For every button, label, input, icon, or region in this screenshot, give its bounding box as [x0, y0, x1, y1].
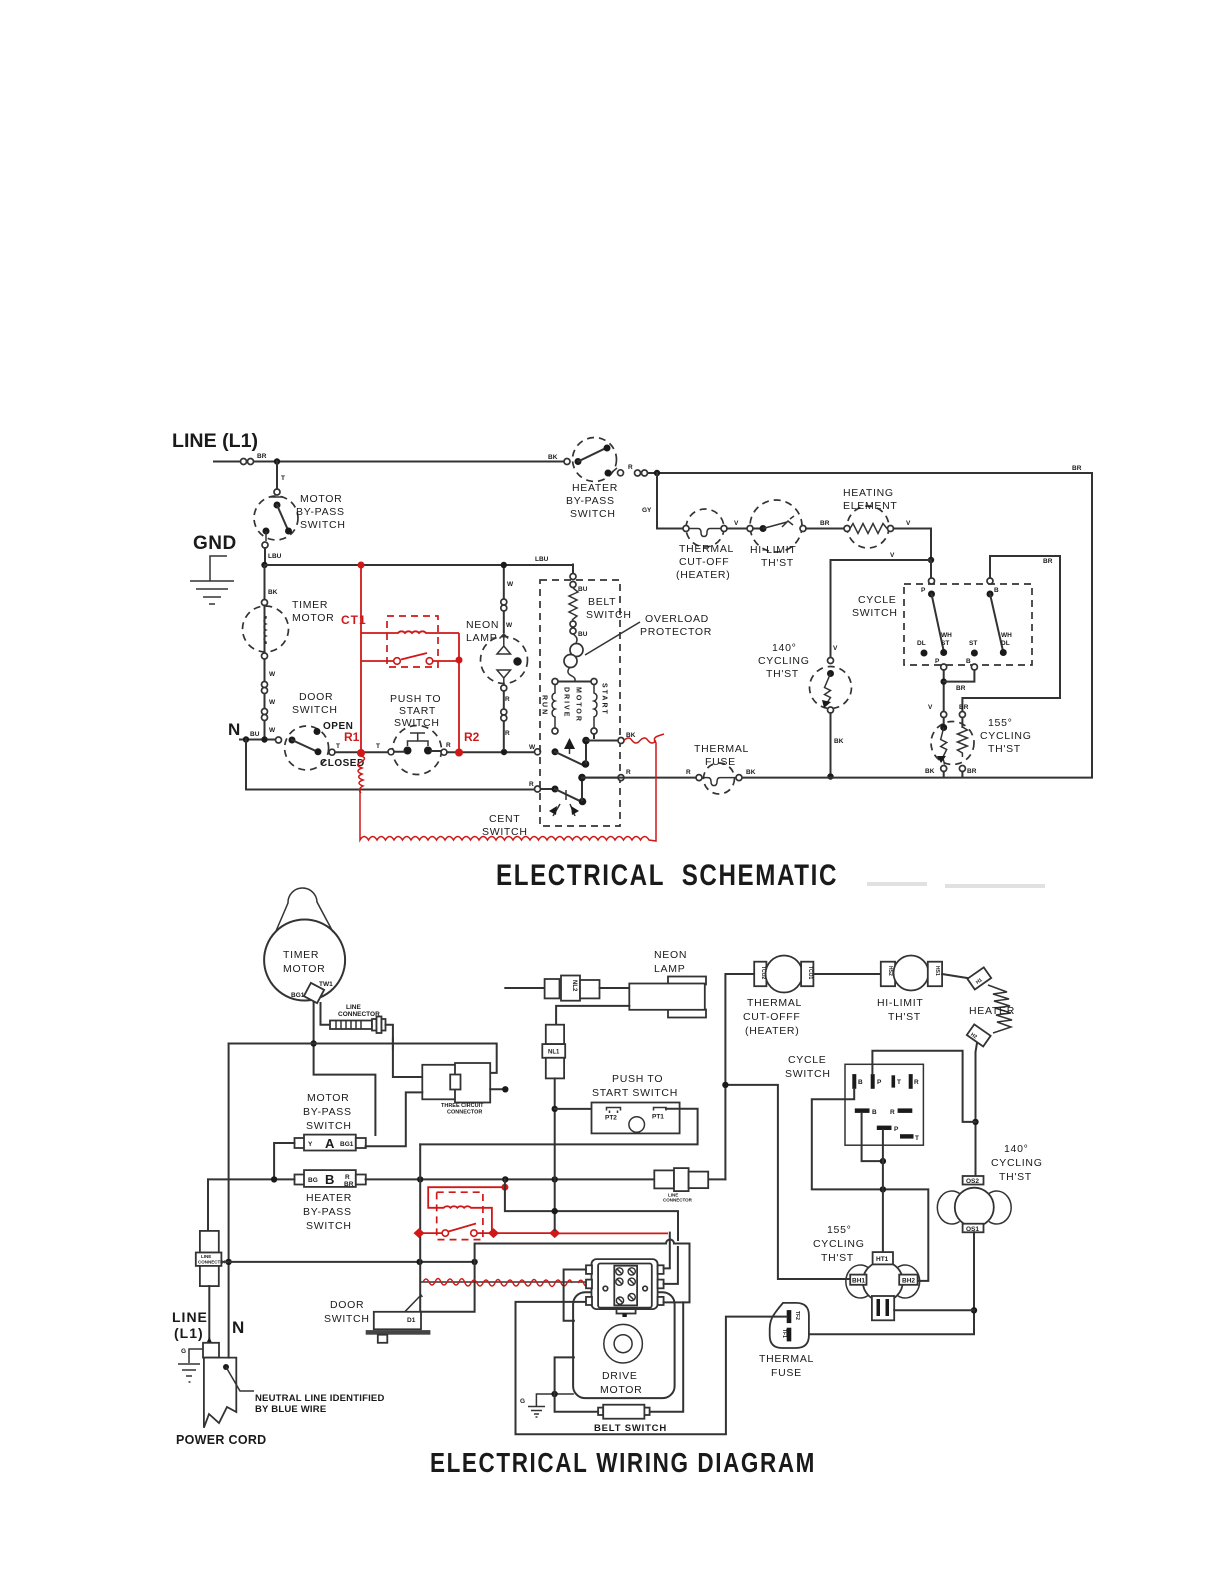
wire timer to line connector	[314, 1002, 376, 1135]
svg-text:PROTECTOR: PROTECTOR	[640, 626, 712, 638]
wire cycle P row pin down to 155	[882, 1130, 884, 1252]
svg-text:FUSE: FUSE	[771, 1367, 802, 1379]
svg-text:MOTOR: MOTOR	[600, 1384, 642, 1396]
wire mid-right pin up	[664, 1247, 678, 1284]
svg-text:P: P	[877, 1079, 882, 1086]
svg-text:LINE: LINE	[201, 1254, 211, 1259]
svg-text:HEATER: HEATER	[572, 482, 618, 494]
svg-text:SWITCH: SWITCH	[570, 508, 616, 520]
svg-text:CT1: CT1	[341, 613, 367, 627]
svg-text:THERMAL: THERMAL	[679, 543, 734, 555]
svg-text:DRIVE: DRIVE	[602, 1370, 638, 1382]
svg-text:HEATER: HEATER	[306, 1192, 352, 1204]
wire bottom BK line	[585, 777, 696, 779]
svg-text:BU: BU	[578, 586, 588, 593]
svg-text:(HEATER): (HEATER)	[676, 569, 730, 581]
svg-text:BK: BK	[548, 454, 558, 461]
svg-text:BK: BK	[268, 589, 278, 596]
svg-text:LAMP: LAMP	[466, 632, 497, 644]
wire TCO drop / line connector (right)	[725, 974, 850, 1279]
svg-text:TW1: TW1	[319, 981, 333, 988]
wire top rail	[229, 1044, 497, 1073]
svg-text:R: R	[628, 464, 633, 471]
svg-text:TIMER: TIMER	[283, 949, 319, 961]
svg-text:BR: BR	[1072, 465, 1082, 472]
svg-text:CONNECTOR: CONNECTOR	[338, 1011, 380, 1018]
svg-text:CUT-OFF: CUT-OFF	[679, 556, 729, 568]
svg-text:BR: BR	[967, 768, 977, 775]
svg-text:THERMAL: THERMAL	[759, 1353, 814, 1365]
svg-text:140°: 140°	[772, 642, 797, 654]
svg-text:T: T	[915, 1135, 919, 1142]
svg-text:W: W	[507, 581, 514, 588]
motor TIMER MOTOR (wiring)	[264, 920, 345, 1001]
svg-text:CENT: CENT	[489, 813, 520, 825]
svg-text:B: B	[858, 1079, 863, 1086]
svg-text:SWITCH: SWITCH	[394, 717, 440, 729]
svg-text:LAMP: LAMP	[654, 963, 685, 975]
svg-text:CYCLING: CYCLING	[991, 1157, 1043, 1169]
wire to LBU node	[264, 548, 266, 565]
svg-text:BK: BK	[746, 769, 756, 776]
svg-text:TF2: TF2	[794, 1311, 800, 1320]
svg-text:MOTOR: MOTOR	[283, 963, 325, 975]
wire cycle B row pin	[862, 1113, 883, 1161]
heater HEATING ELEMENT	[847, 506, 889, 548]
svg-text:ELECTRICAL SCHEMATIC: ELECTRICAL SCHEMATIC	[496, 859, 838, 892]
svg-text:R: R	[345, 1174, 350, 1181]
svg-text:CUT-OFFF: CUT-OFFF	[743, 1011, 801, 1023]
svg-text:ELEMENT: ELEMENT	[843, 500, 898, 512]
wire BR loop upper	[962, 556, 1060, 711]
power cord assembly	[203, 1343, 219, 1358]
switch BELT SWITCH	[598, 1408, 603, 1415]
svg-text:SWITCH: SWITCH	[300, 519, 346, 531]
cent switch arrows	[553, 804, 575, 816]
wire connector to NL2 rail	[490, 1088, 505, 1090]
svg-text:SWITCH: SWITCH	[785, 1068, 831, 1080]
svg-text:THREE CIRCUIT: THREE CIRCUIT	[441, 1103, 484, 1109]
svg-text:CONNECTOR: CONNECTOR	[447, 1110, 482, 1116]
svg-text:SWITCH: SWITCH	[292, 704, 338, 716]
svg-text:ST: ST	[941, 640, 949, 647]
svg-text:NEON: NEON	[466, 619, 499, 631]
svg-text:BR: BR	[959, 704, 969, 711]
svg-text:NEON: NEON	[654, 949, 687, 961]
wire door to motor (red scribbled)	[420, 1281, 586, 1283]
svg-text:PUSH TO: PUSH TO	[612, 1073, 663, 1085]
connector NL1	[546, 1025, 564, 1044]
svg-text:B: B	[994, 587, 999, 594]
svg-text:CONNECTOR: CONNECTOR	[663, 1198, 693, 1203]
wire lamp second terminal to NL1	[556, 1006, 629, 1025]
svg-text:R: R	[626, 769, 631, 776]
wire H2 down	[976, 1043, 978, 1176]
svg-text:(L1): (L1)	[174, 1325, 204, 1341]
svg-text:BU: BU	[250, 731, 260, 738]
svg-text:BELT: BELT	[588, 596, 616, 608]
svg-text:DL: DL	[917, 640, 926, 647]
svg-text:HS1: HS1	[934, 966, 940, 976]
svg-text:MOTOR: MOTOR	[300, 493, 342, 505]
svg-text:MOTOR: MOTOR	[292, 612, 334, 624]
svg-text:OVERLOAD: OVERLOAD	[645, 613, 709, 625]
svg-text:LBU: LBU	[535, 556, 549, 563]
wire drop to motor by-pass switch	[276, 462, 278, 490]
fuse THERMAL CUT-OFF (HEATER)	[686, 509, 724, 547]
svg-text:GY: GY	[642, 507, 652, 514]
svg-text:N: N	[232, 1318, 244, 1337]
wire timer column upper	[264, 565, 266, 599]
switch HEATER BY-PASS SWITCH	[573, 438, 617, 482]
svg-text:CYCLING: CYCLING	[980, 730, 1032, 742]
wire LBU corner to belt switch	[572, 565, 574, 574]
ground symbol	[210, 556, 227, 581]
node neon column bottom	[501, 749, 507, 755]
svg-text:WH: WH	[1001, 632, 1012, 639]
svg-text:GND: GND	[193, 533, 237, 554]
wire top L1 line	[214, 461, 567, 463]
svg-text:ST: ST	[969, 640, 977, 647]
svg-text:DRIVE: DRIVE	[563, 687, 570, 718]
svg-text:BH2: BH2	[902, 1278, 915, 1285]
svg-text:NL1: NL1	[548, 1050, 560, 1056]
svg-text:P: P	[894, 1126, 899, 1133]
drive motor body	[573, 1292, 675, 1398]
dashed box motor assembly	[540, 580, 620, 826]
wire B line	[208, 1178, 295, 1180]
wire N drop to lower rail	[246, 740, 534, 790]
svg-text:CYCLING: CYCLING	[813, 1238, 865, 1250]
wire from cycle P bottom	[943, 670, 945, 711]
svg-text:W: W	[269, 671, 276, 678]
red annotation cent switch boundary	[358, 756, 365, 793]
svg-text:V: V	[833, 645, 838, 652]
svg-text:DOOR: DOOR	[299, 691, 333, 703]
svg-text:BK: BK	[834, 738, 844, 745]
terminal block on timer	[304, 983, 324, 1003]
svg-text:TH'ST: TH'ST	[888, 1011, 921, 1023]
thermal cutoff TCO	[754, 962, 766, 987]
overload protector symbol	[573, 634, 577, 643]
svg-text:START SWITCH: START SWITCH	[592, 1087, 678, 1099]
wire cycle P top loop	[872, 1051, 975, 1122]
svg-text:BELT SWITCH: BELT SWITCH	[594, 1423, 667, 1434]
svg-text:P: P	[921, 587, 926, 594]
wire top line after bypass	[648, 473, 1093, 777]
svg-text:THERMAL: THERMAL	[694, 743, 749, 755]
svg-text:R: R	[505, 696, 510, 703]
svg-text:TH'ST: TH'ST	[821, 1252, 854, 1264]
cent switch upper contact	[552, 748, 559, 755]
svg-text:A: A	[325, 1136, 335, 1151]
svg-text:HI-LIMIT: HI-LIMIT	[877, 997, 923, 1009]
thermostat HI-LIMIT (wiring)	[813, 973, 880, 975]
svg-text:D1: D1	[407, 1317, 416, 1324]
svg-text:LBU: LBU	[268, 553, 282, 560]
svg-text:SWITCH: SWITCH	[482, 826, 528, 838]
wire N rail	[228, 1044, 230, 1358]
svg-text:R: R	[890, 1109, 895, 1116]
svg-text:W: W	[506, 622, 513, 629]
svg-text:TCO1: TCO1	[807, 966, 813, 980]
svg-text:R: R	[686, 769, 691, 776]
svg-text:HEATING: HEATING	[843, 487, 894, 499]
svg-text:Y: Y	[308, 1141, 313, 1148]
wire B to motor branch	[505, 1179, 678, 1240]
wire PT1 loop	[420, 1109, 697, 1145]
svg-text:BR: BR	[956, 685, 966, 692]
svg-text:V: V	[890, 552, 895, 559]
svg-text:B: B	[325, 1172, 334, 1187]
svg-text:ELECTRICAL WIRING DIAGRAM: ELECTRICAL WIRING DIAGRAM	[430, 1447, 816, 1478]
wire belt switch right	[650, 1302, 684, 1411]
svg-text:TH'ST: TH'ST	[766, 668, 799, 680]
svg-text:BU: BU	[578, 631, 588, 638]
svg-text:TIMER: TIMER	[292, 599, 328, 611]
wire HT2 out	[894, 1309, 974, 1311]
node heater output junction	[928, 557, 934, 563]
svg-text:BG1: BG1	[340, 1141, 354, 1148]
svg-text:(HEATER): (HEATER)	[745, 1025, 799, 1037]
svg-text:WH: WH	[941, 632, 952, 639]
svg-text:B: B	[966, 658, 971, 665]
svg-text:BG: BG	[308, 1177, 318, 1184]
svg-text:TH'ST: TH'ST	[761, 557, 794, 569]
svg-text:BR: BR	[257, 453, 267, 460]
wire N line	[240, 739, 275, 741]
connector LINE CONNECTOR (mid)	[708, 1178, 725, 1180]
thermal fuse (wiring)	[770, 1303, 809, 1348]
wire GY drop	[657, 473, 683, 529]
svg-text:MOTOR: MOTOR	[575, 687, 582, 723]
svg-text:START: START	[601, 683, 608, 716]
svg-text:TF1: TF1	[781, 1329, 787, 1338]
svg-text:BR: BR	[820, 520, 830, 527]
svg-text:LINE: LINE	[346, 1004, 361, 1011]
connector double circles on L1	[241, 459, 247, 465]
wire top-right pin to red line	[664, 1233, 670, 1269]
wire A right lower to connector	[366, 1092, 423, 1146]
svg-text:BY-PASS: BY-PASS	[296, 506, 345, 518]
svg-text:BH1: BH1	[852, 1278, 865, 1285]
svg-text:TH'ST: TH'ST	[999, 1171, 1032, 1183]
wire A left	[274, 1143, 294, 1177]
connector NL2	[545, 979, 560, 998]
red relay (wiring)	[437, 1192, 483, 1239]
motor TIMER MOTOR	[243, 606, 289, 652]
svg-text:W: W	[269, 699, 276, 706]
svg-text:TH'ST: TH'ST	[988, 743, 1021, 755]
svg-text:OS2: OS2	[966, 1178, 979, 1185]
svg-text:DOOR: DOOR	[330, 1299, 364, 1311]
connector LINE CONNECTOR (left)	[200, 1231, 219, 1253]
svg-text:CYCLING: CYCLING	[758, 655, 810, 667]
wire LBU horizontal line	[265, 564, 574, 566]
wire top-left pin loop	[564, 1270, 586, 1321]
connector THREE CIRCUIT CONNECTOR	[422, 1065, 455, 1100]
svg-text:R: R	[914, 1079, 919, 1086]
svg-text:SWITCH: SWITCH	[306, 1220, 352, 1232]
wire neon lamp column	[503, 565, 505, 632]
node LBU junction	[261, 562, 267, 568]
svg-text:T: T	[336, 743, 340, 750]
switch MOTOR BY-PASS SWITCH	[254, 496, 298, 540]
wire OS1 down	[809, 1232, 974, 1334]
svg-text:RUN: RUN	[541, 695, 548, 716]
svg-text:V: V	[928, 704, 933, 711]
switch HEATER BY-PASS SWITCH B	[295, 1175, 305, 1185]
svg-text:SWITCH: SWITCH	[852, 607, 898, 619]
svg-text:HI-LIMIT: HI-LIMIT	[750, 544, 796, 556]
svg-text:G: G	[181, 1348, 186, 1355]
wire cycle B top loop	[812, 1089, 929, 1281]
svg-text:P: P	[935, 658, 940, 665]
svg-text:THERMAL: THERMAL	[747, 997, 802, 1009]
svg-text:R: R	[446, 742, 451, 749]
terminal block	[592, 1259, 658, 1309]
svg-text:BR: BR	[344, 1181, 354, 1188]
svg-text:HS2: HS2	[887, 966, 893, 976]
svg-text:R: R	[505, 730, 510, 737]
wire bottom-right pin loop	[475, 1244, 690, 1303]
svg-text:BK: BK	[925, 768, 935, 775]
svg-text:PT1: PT1	[652, 1114, 664, 1121]
svg-text:V: V	[734, 520, 739, 527]
svg-text:CYCLE: CYCLE	[788, 1054, 827, 1066]
svg-text:POWER CORD: POWER CORD	[176, 1433, 267, 1447]
switch PUSH TO START SWITCH	[393, 726, 442, 775]
svg-text:LINE (L1): LINE (L1)	[172, 431, 258, 452]
svg-text:SWITCH: SWITCH	[586, 609, 632, 621]
heater HEATER	[942, 974, 967, 978]
svg-text:R1: R1	[344, 730, 360, 744]
switch BELT SWITCH column	[570, 574, 576, 580]
thermostat HI-LIMIT TH'ST	[750, 500, 802, 552]
svg-text:155°: 155°	[988, 717, 1013, 729]
svg-text:T: T	[376, 743, 380, 750]
svg-text:NL2: NL2	[571, 980, 577, 992]
svg-text:SWITCH: SWITCH	[324, 1313, 370, 1325]
svg-text:HT1: HT1	[876, 1256, 889, 1263]
svg-text:T: T	[281, 475, 285, 482]
svg-text:B: B	[872, 1109, 877, 1116]
svg-text:DL: DL	[1001, 640, 1010, 647]
wire door switch vertical	[419, 1144, 421, 1311]
wire door NO contact	[421, 1244, 475, 1311]
junction hop	[392, 1038, 394, 1049]
svg-text:W: W	[269, 727, 276, 734]
svg-text:BY-PASS: BY-PASS	[303, 1106, 352, 1118]
svg-text:V: V	[906, 520, 911, 527]
svg-text:CYCLE: CYCLE	[858, 594, 897, 606]
svg-text:BY BLUE WIRE: BY BLUE WIRE	[255, 1404, 326, 1415]
node junction at motor bypass tap	[274, 458, 280, 464]
wire lower horizontal rail	[222, 1261, 475, 1263]
switch DOOR SWITCH	[285, 726, 329, 770]
neon lamp body	[668, 977, 706, 985]
svg-text:155°: 155°	[827, 1224, 852, 1236]
svg-text:START: START	[399, 705, 436, 717]
svg-text:G: G	[520, 1398, 525, 1405]
svg-text:OS1: OS1	[966, 1226, 979, 1233]
svg-text:BG1: BG1	[291, 992, 305, 999]
svg-text:NEUTRAL LINE IDENTIFIED: NEUTRAL LINE IDENTIFIED	[255, 1393, 385, 1404]
svg-text:BY-PASS: BY-PASS	[303, 1206, 352, 1218]
svg-text:MOTOR: MOTOR	[307, 1092, 349, 1104]
svg-text:SWITCH: SWITCH	[306, 1120, 352, 1132]
svg-text:BR: BR	[1043, 558, 1053, 565]
motor DRIVE MOTOR (schematic)	[558, 681, 591, 683]
wire R1-R2 line	[335, 751, 388, 753]
svg-text:R2: R2	[464, 730, 480, 744]
svg-text:PUSH TO: PUSH TO	[390, 693, 441, 705]
svg-text:PT2: PT2	[605, 1115, 617, 1122]
svg-text:HEATER: HEATER	[969, 1005, 1015, 1017]
svg-text:N: N	[228, 720, 240, 739]
svg-text:140°: 140°	[1004, 1143, 1029, 1155]
svg-text:R: R	[529, 781, 534, 788]
svg-text:BY-PASS: BY-PASS	[566, 495, 615, 507]
svg-text:T: T	[897, 1079, 901, 1086]
svg-text:LINE: LINE	[172, 1309, 208, 1325]
wire B left drop to L1 connector	[207, 1179, 209, 1231]
